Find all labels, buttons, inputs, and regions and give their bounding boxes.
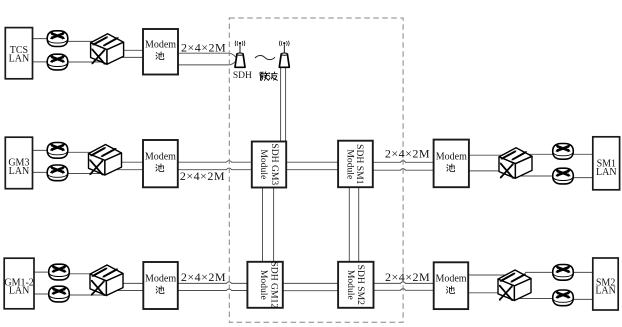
svg-text:SDH: SDH [233, 71, 252, 81]
svg-text:SDH GM12: SDH GM12 [268, 261, 279, 308]
svg-text:SM2LAN: SM2LAN [595, 277, 616, 296]
svg-text:SM1LAN: SM1LAN [596, 159, 617, 179]
svg-text:Modem: Modem [435, 274, 466, 285]
svg-text:GM3LAN: GM3LAN [8, 158, 29, 178]
svg-text:2×4×2M: 2×4×2M [181, 270, 226, 284]
svg-text:2×4×2M: 2×4×2M [385, 147, 430, 161]
svg-text:Module: Module [345, 270, 356, 300]
svg-text:Modem: Modem [145, 152, 176, 163]
svg-text:Modem: Modem [145, 40, 176, 51]
svg-text:Modem: Modem [436, 152, 467, 163]
svg-text:2×4×2M: 2×4×2M [181, 40, 226, 54]
svg-text:Module: Module [344, 149, 355, 179]
svg-text:Modem: Modem [145, 274, 176, 285]
svg-text:2×4×2M: 2×4×2M [180, 169, 225, 183]
svg-text:Module: Module [258, 270, 269, 300]
svg-text:2×4×2M: 2×4×2M [385, 270, 430, 284]
svg-text:Module: Module [258, 149, 269, 179]
svg-text:TCSLAN: TCSLAN [9, 45, 30, 65]
svg-text:SDH GM3: SDH GM3 [269, 143, 280, 185]
